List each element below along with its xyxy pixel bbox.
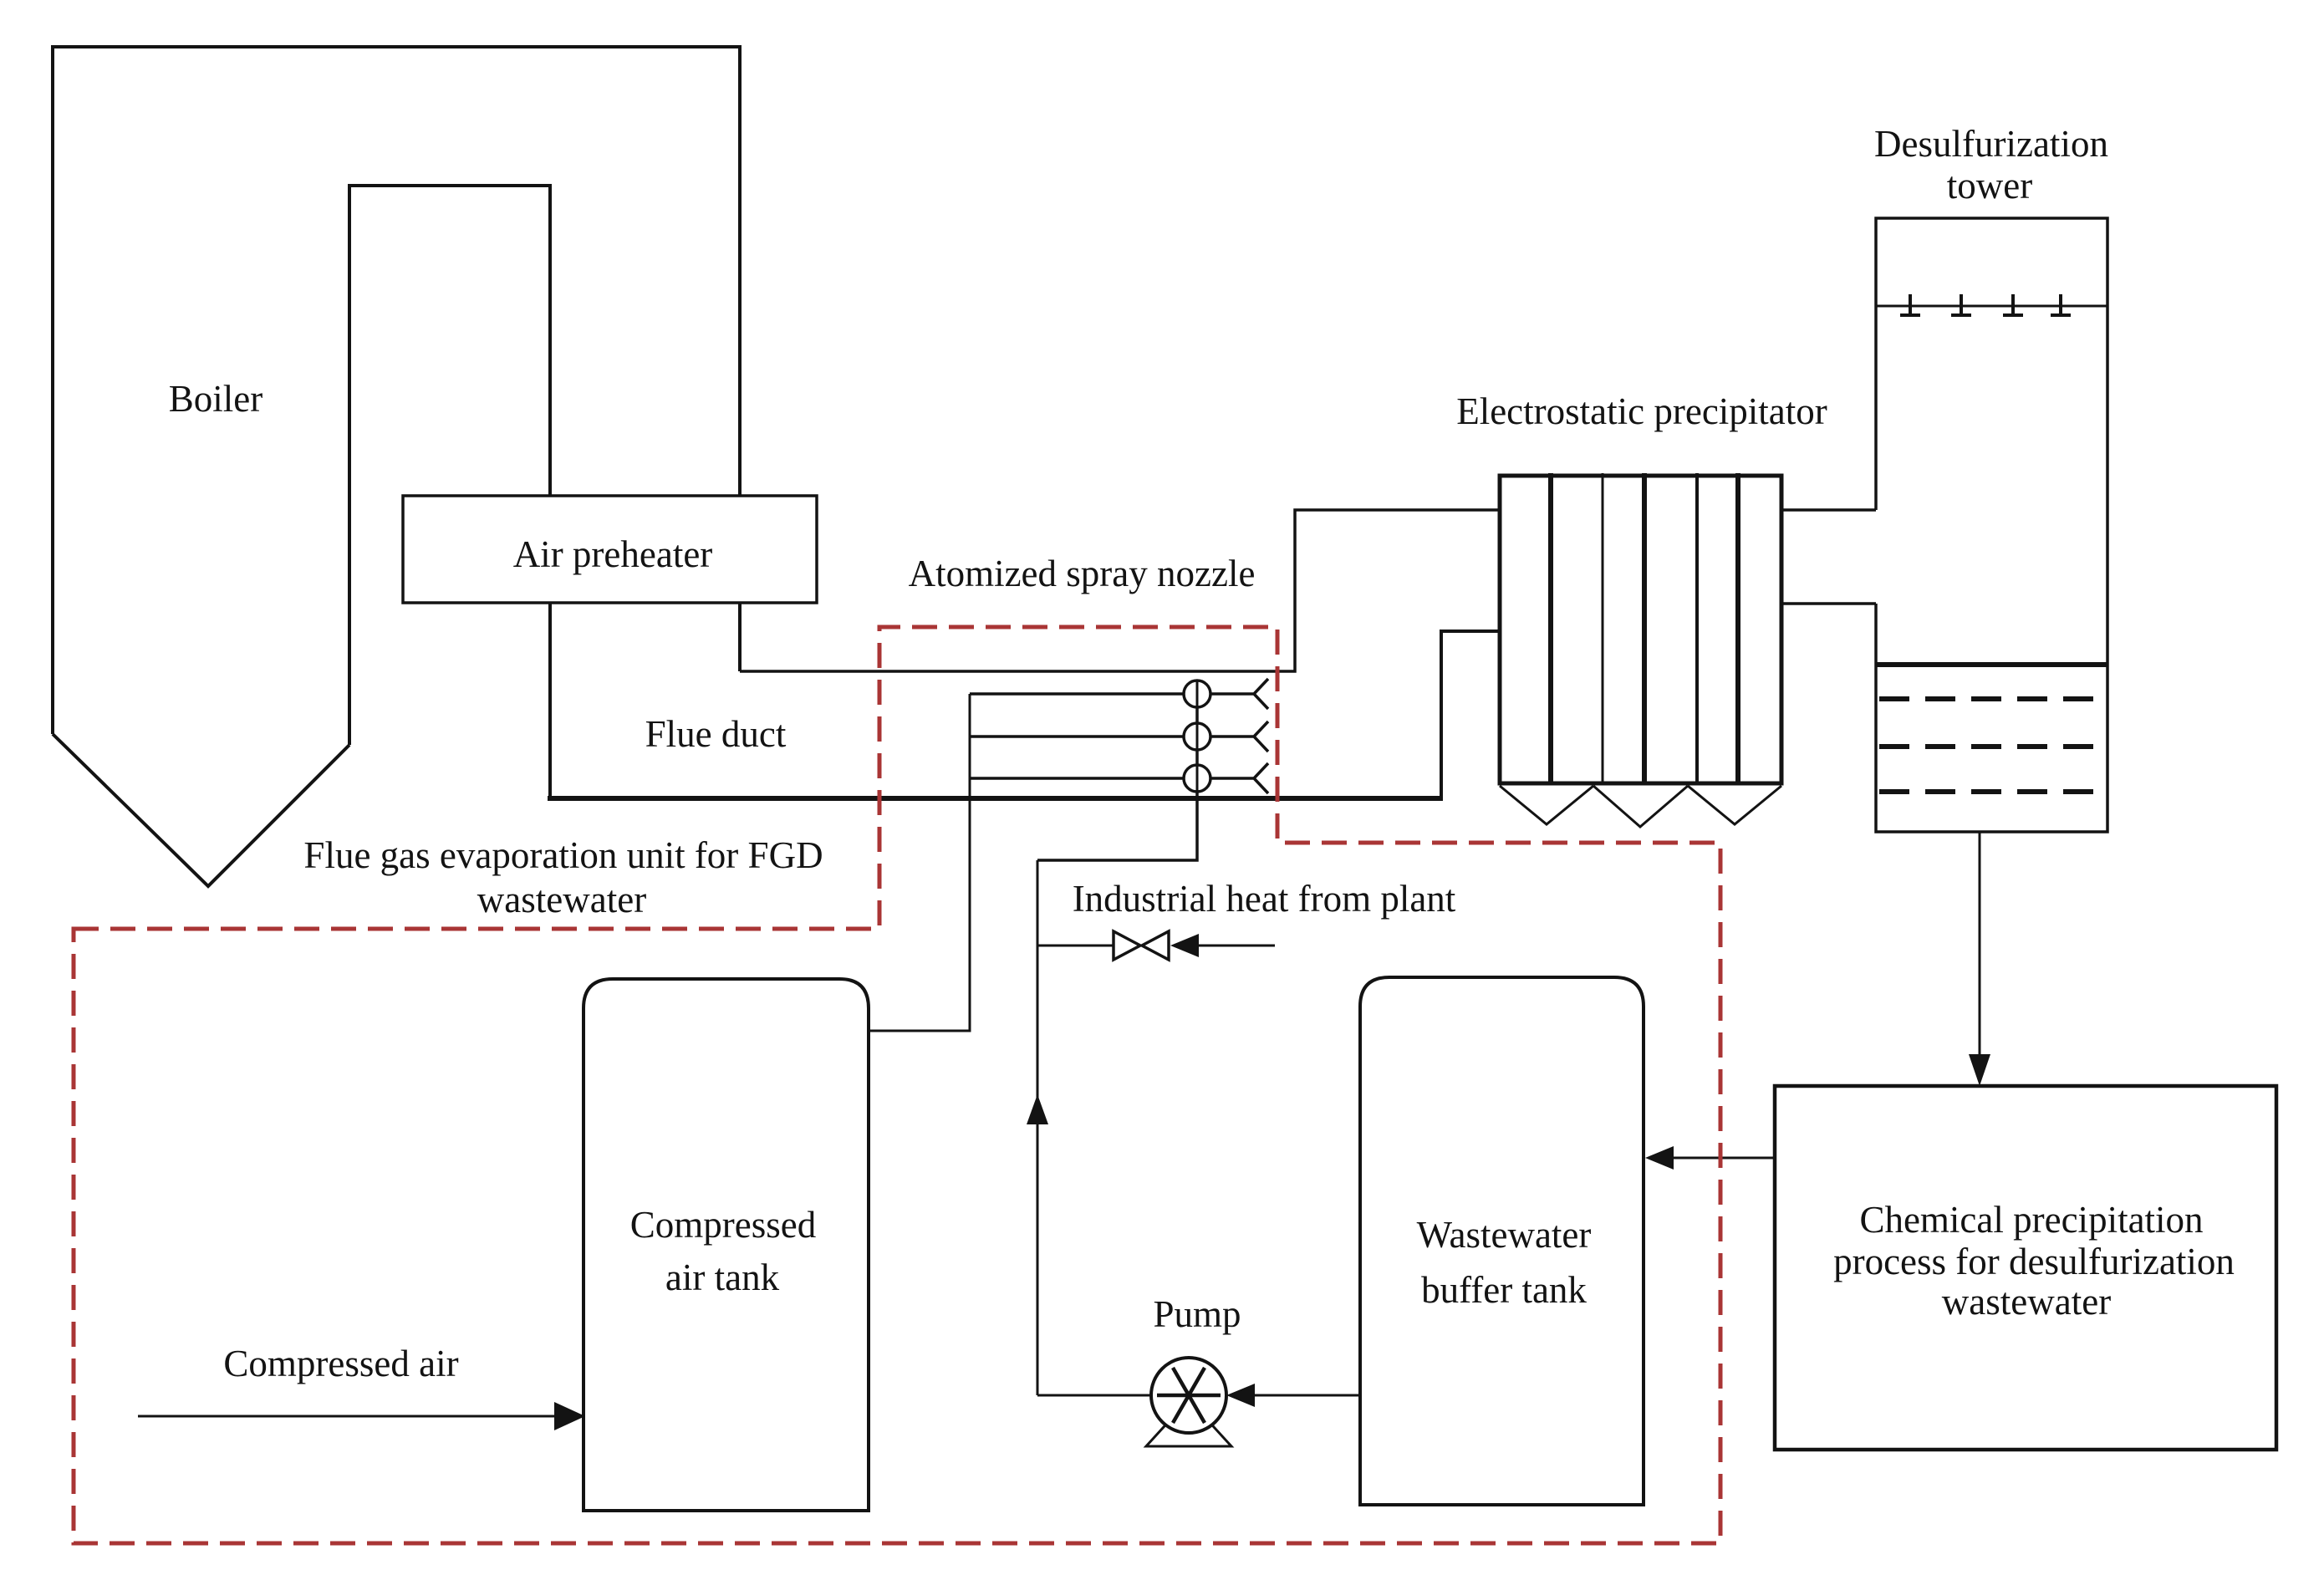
svg-text:wastewater: wastewater [1942, 1281, 2111, 1323]
flue gas evaporation unit label [303, 834, 823, 920]
wire: wastewater riser [1037, 860, 1039, 1395]
wire: pump discharge [1037, 1394, 1151, 1397]
ESP plate 2 [1602, 473, 1604, 783]
svg-text:Chemical precipitation: Chemical precipitation [1859, 1199, 2203, 1241]
wire: nozzle branch line 3 [970, 777, 1210, 780]
compressed air tank label [630, 1204, 816, 1298]
air preheater box [403, 496, 817, 603]
arrowhead down into chemical box [1969, 1054, 1990, 1086]
ESP hopper 2 [1593, 786, 1688, 827]
wire: boiler right wall below preheater [738, 603, 742, 671]
ESP plate 5 [1735, 473, 1740, 783]
desulfurization tower shell [1876, 218, 2107, 832]
svg-text:Wastewater: Wastewater [1417, 1214, 1592, 1256]
svg-text:Air preheater: Air preheater [513, 533, 713, 575]
tower slurry dashed line 2 [1879, 744, 2104, 749]
tower nozzle symbol 1 [1900, 294, 1920, 315]
ESP plate 4 [1695, 473, 1699, 783]
tower slurry surface thick line [1876, 662, 2107, 667]
ESP hopper 3 [1688, 786, 1781, 824]
wire: chemical box to buffer tank [1668, 1157, 1775, 1160]
wire: tower drain to chemical box [1979, 832, 1981, 1055]
wire: nozzle branch line 1 [970, 692, 1210, 696]
arrowhead up on riser [1027, 1094, 1048, 1124]
svg-text:Pump: Pump [1153, 1293, 1241, 1335]
pump base [1146, 1418, 1231, 1446]
svg-text:Electrostatic precipitator: Electrostatic precipitator [1456, 390, 1827, 432]
chemical precipitation box [1775, 1086, 2276, 1450]
valve on industrial heat line [1114, 931, 1169, 960]
ESP plate 1 [1548, 473, 1553, 783]
pump body [1151, 1358, 1226, 1433]
arrowhead left into buffer tank [1645, 1146, 1674, 1170]
tower spray header line [1876, 305, 2107, 308]
svg-text:tower: tower [1947, 165, 2032, 206]
ESP hopper 1 [1500, 786, 1593, 824]
svg-text:wastewater: wastewater [477, 879, 646, 920]
tower slurry dashed line 1 [1879, 696, 2104, 701]
wire: ESP to tower upper duct [1781, 508, 1876, 512]
svg-text:Industrial heat from plant: Industrial heat from plant [1073, 878, 1456, 920]
wire: inner duct wall below preheater [548, 603, 552, 798]
arrowhead left into valve [1170, 934, 1199, 957]
svg-text:buffer tank: buffer tank [1421, 1269, 1587, 1311]
svg-text:Compressed: Compressed [630, 1204, 816, 1246]
boiler outline [53, 47, 740, 886]
nozzle spray fork 2 [1210, 721, 1268, 752]
wire: upper flue duct line from boiler to ESP [740, 510, 1500, 671]
wire: lower flue duct thick line [548, 796, 1443, 801]
wastewater buffer tank [1360, 977, 1644, 1505]
svg-text:Flue duct: Flue duct [645, 713, 787, 755]
svg-text:Flue gas evaporation unit for: Flue gas evaporation unit for FGD [303, 834, 823, 876]
arrowhead right into tank [554, 1402, 585, 1430]
tower nozzle symbol 4 [2051, 294, 2071, 315]
nozzle circle 3 [1184, 765, 1210, 792]
svg-text:Desulfurization: Desulfurization [1874, 123, 2108, 165]
wire: compressed air inlet [138, 1415, 556, 1418]
compressed air tank [584, 979, 869, 1511]
red dashed system boundary [74, 627, 1720, 1543]
wire: compressed air feed vertical to branches [869, 694, 970, 1031]
wire: riser elbow to nozzle feed pipe [1037, 680, 1197, 860]
svg-text:Boiler: Boiler [169, 378, 262, 420]
chemical precipitation label [1833, 1199, 2235, 1323]
wire: buffer tank to pump suction [1250, 1394, 1360, 1397]
wastewater buffer tank label [1417, 1214, 1592, 1311]
wire: nozzle branch line 2 [970, 735, 1210, 738]
electrostatic precipitator body [1500, 476, 1781, 783]
nozzle spray fork 3 [1210, 763, 1268, 793]
ESP plate 3 [1642, 473, 1647, 783]
svg-text:air tank: air tank [665, 1257, 780, 1298]
nozzle circle 2 [1184, 723, 1210, 750]
svg-text:process for desulfurization: process for desulfurization [1833, 1241, 2235, 1282]
tower slurry dashed line 3 [1879, 789, 2104, 794]
wire: nozzle feed vertical through circles [1196, 680, 1199, 860]
arrowhead left into pump [1226, 1384, 1255, 1407]
wire: lower flue riser into ESP [1441, 631, 1500, 798]
svg-text:Compressed air: Compressed air [223, 1343, 458, 1384]
nozzle circle 1 [1184, 681, 1210, 707]
tower nozzle symbol 3 [2003, 294, 2023, 315]
tower nozzle symbol 2 [1951, 294, 1971, 315]
wire: industrial heat line [1037, 945, 1275, 947]
wire: ESP to tower lower duct [1781, 602, 1876, 605]
nozzle spray fork 1 [1210, 679, 1268, 709]
svg-text:Atomized spray nozzle: Atomized spray nozzle [909, 553, 1256, 594]
